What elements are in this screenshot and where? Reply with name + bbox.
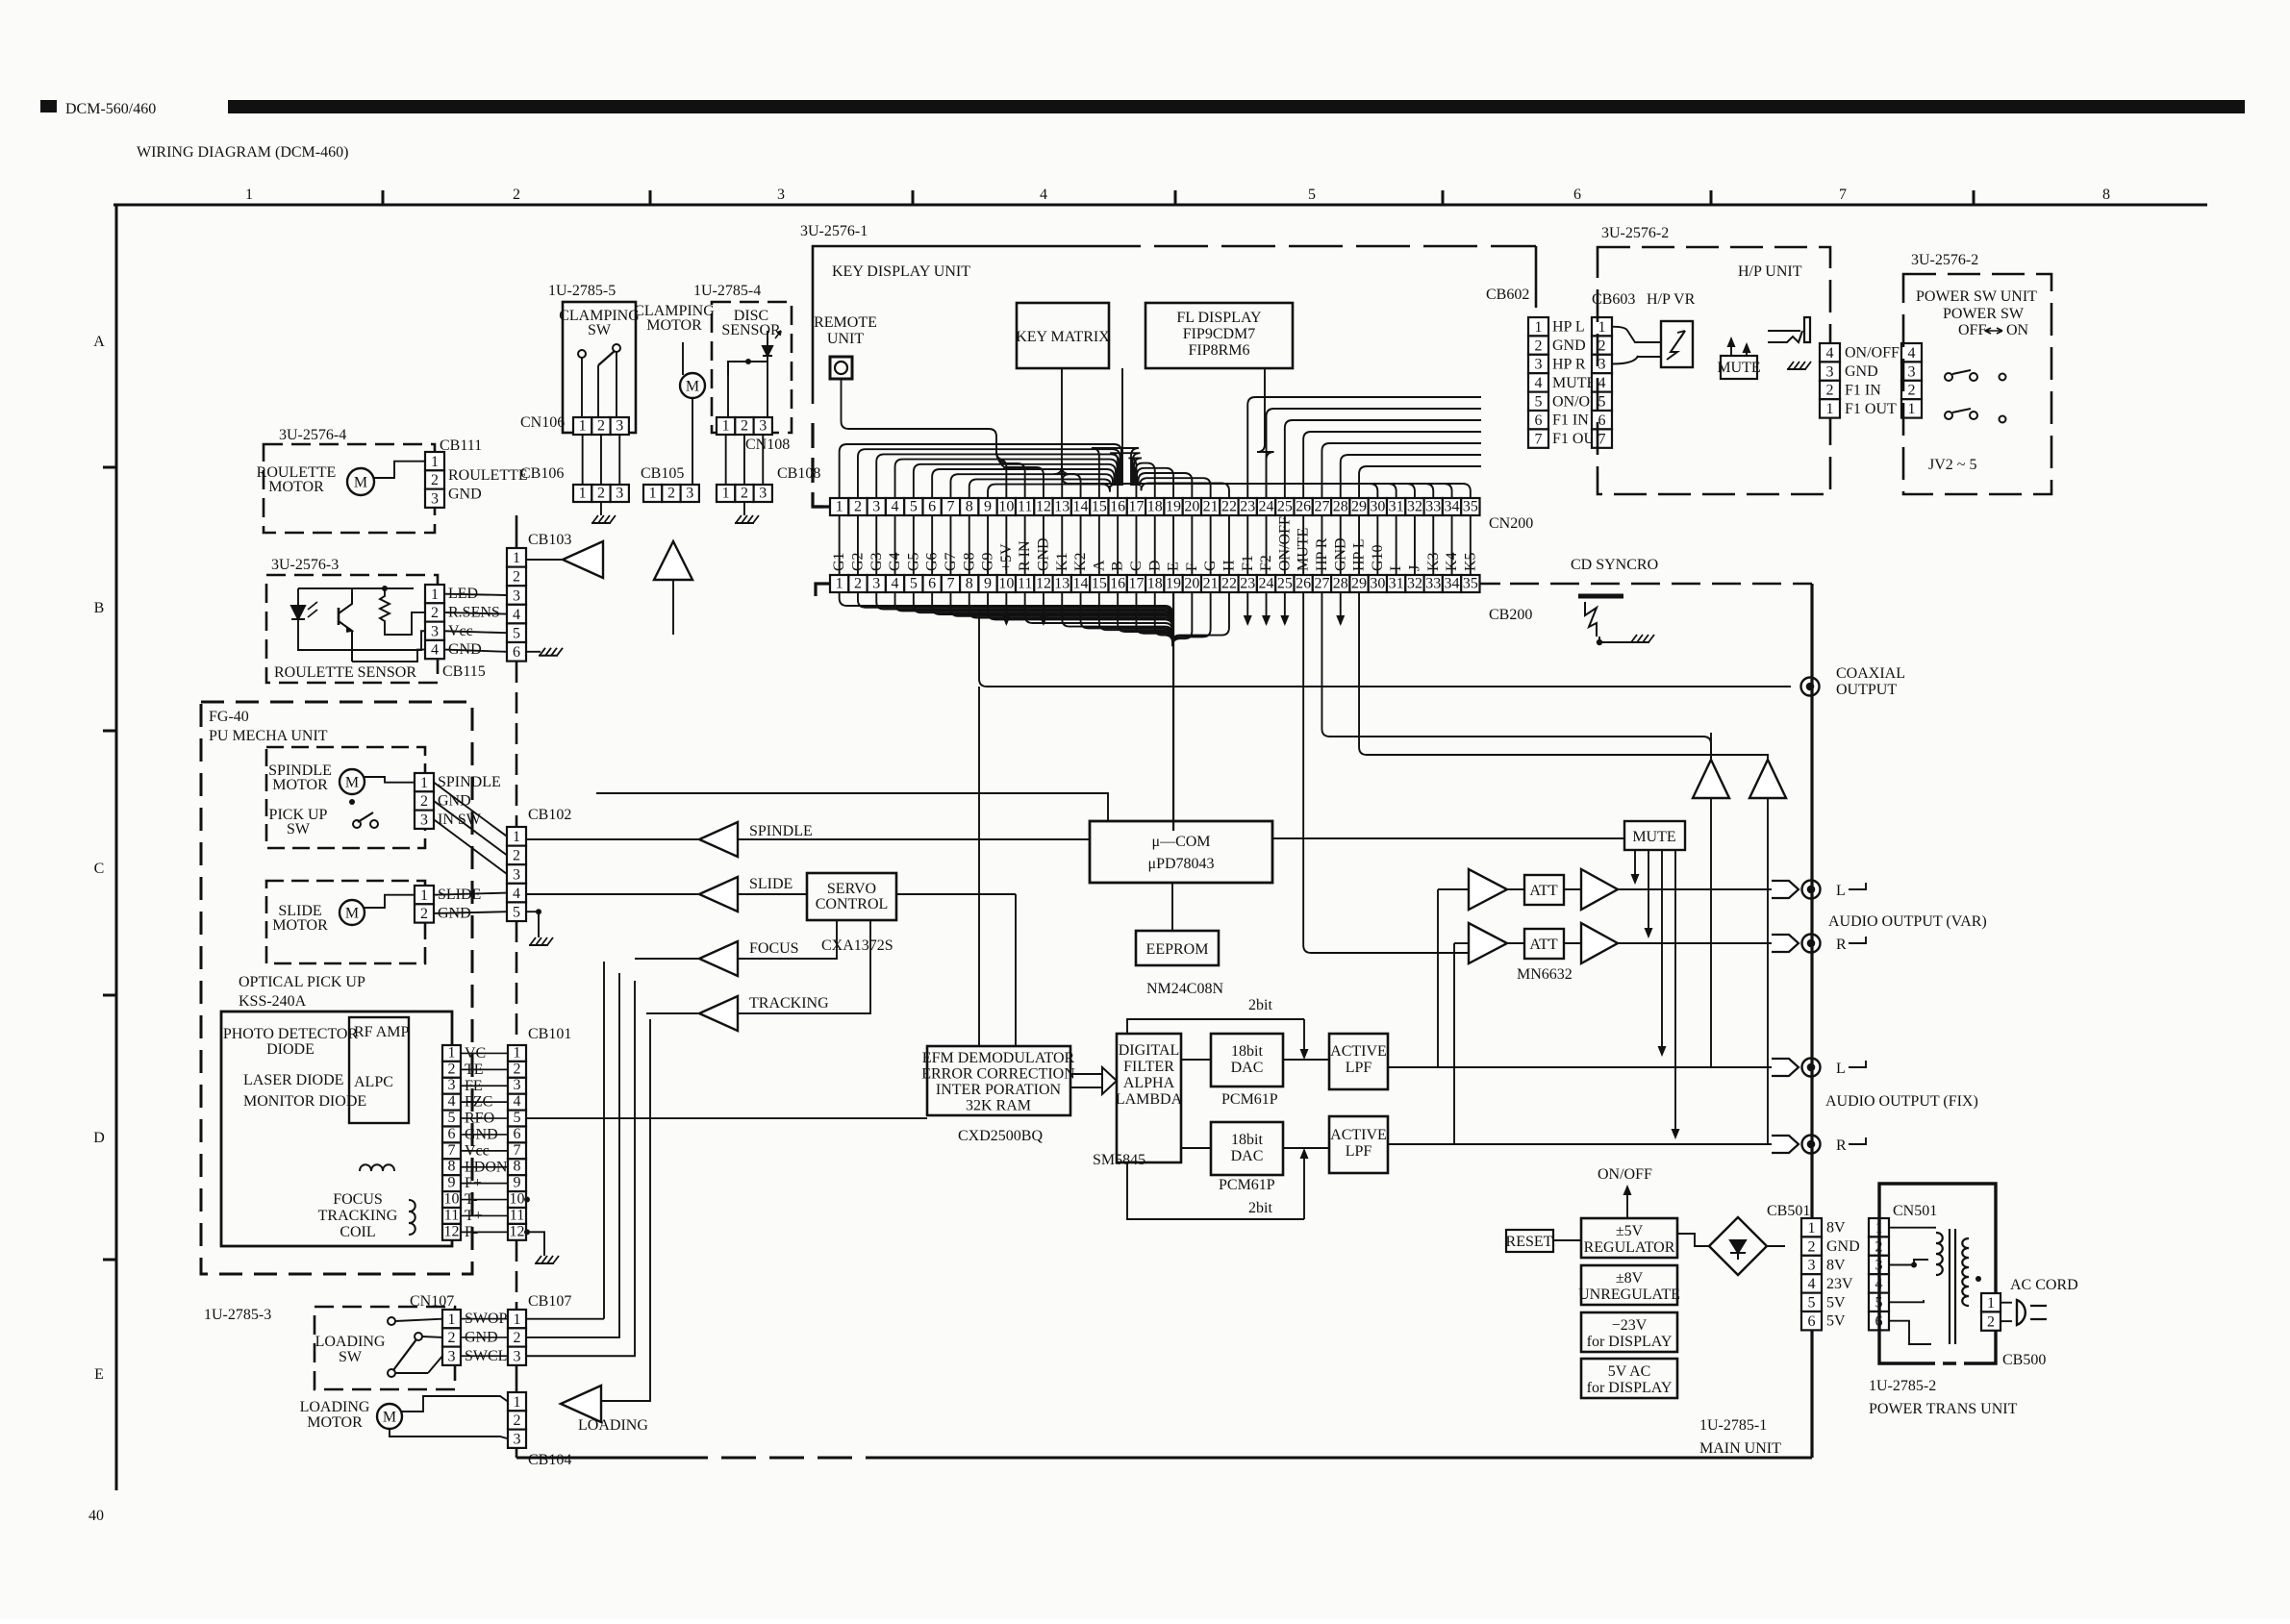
svg-text:SLIDE: SLIDE xyxy=(749,876,793,892)
wires CB107 to main xyxy=(527,966,616,1319)
svg-text:DIODE: DIODE xyxy=(266,1041,315,1058)
svg-text:5: 5 xyxy=(1535,394,1543,411)
svg-text:32: 32 xyxy=(1407,576,1422,592)
svg-text:3: 3 xyxy=(872,576,880,592)
svg-text:3U-2576-4: 3U-2576-4 xyxy=(279,427,346,443)
pick up switch xyxy=(353,820,361,828)
svg-text:16: 16 xyxy=(1110,576,1125,592)
svg-text:23: 23 xyxy=(1240,576,1255,592)
disc sensor photodiode xyxy=(763,346,772,356)
svg-text:2: 2 xyxy=(513,187,520,203)
loading sw dashed box xyxy=(315,1307,455,1389)
connector CB111 3-pin xyxy=(425,452,444,508)
connector CB107 3-pin xyxy=(508,1310,526,1365)
EFM demodulator box xyxy=(927,1046,1070,1115)
svg-text:ATT: ATT xyxy=(1529,883,1558,899)
svg-text:CN106: CN106 xyxy=(520,414,565,431)
connector CB104 3-pin xyxy=(508,1392,526,1448)
svg-text:INTER PORATION: INTER PORATION xyxy=(936,1082,1062,1098)
svg-text:4: 4 xyxy=(448,1093,456,1110)
svg-text:35: 35 xyxy=(1463,576,1478,592)
wires transformer to AC xyxy=(1978,1250,1981,1303)
svg-text:5: 5 xyxy=(514,1110,521,1126)
svg-text:10: 10 xyxy=(444,1191,460,1208)
svg-text:1: 1 xyxy=(1908,401,1916,417)
svg-text:32K RAM: 32K RAM xyxy=(966,1098,1031,1114)
svg-text:PU MECHA UNIT: PU MECHA UNIT xyxy=(209,728,328,744)
svg-text:1U-2785-5: 1U-2785-5 xyxy=(548,283,616,299)
vertical taps to VAR chain xyxy=(1437,889,1439,1067)
slide driver triangle xyxy=(699,877,738,912)
spindle motor dashed box xyxy=(266,747,425,848)
ground CB101 pin12 xyxy=(527,1232,544,1256)
svg-text:3U-2576-2: 3U-2576-2 xyxy=(1601,225,1669,241)
svg-text:LOADING: LOADING xyxy=(578,1417,648,1434)
svg-text:2: 2 xyxy=(420,906,428,922)
wires CB602-CB603 jumpers xyxy=(1548,326,1592,328)
svg-text:3: 3 xyxy=(872,499,880,515)
coaxial output jack xyxy=(1801,678,1820,696)
svg-text:CB107: CB107 xyxy=(528,1293,571,1310)
svg-text:μ—COM: μ—COM xyxy=(1151,834,1210,850)
svg-text:DAC: DAC xyxy=(1231,1148,1264,1164)
wires spindle connector to CB102 xyxy=(434,783,507,837)
svg-text:ON: ON xyxy=(2006,322,2029,338)
svg-text:24: 24 xyxy=(1259,576,1274,592)
svg-text:33: 33 xyxy=(1425,499,1441,515)
CN200-CB200 through wires xyxy=(839,515,841,575)
svg-text:8V: 8V xyxy=(1826,1258,1846,1274)
svg-text:7: 7 xyxy=(1839,187,1847,203)
svg-text:1: 1 xyxy=(722,418,730,435)
svg-text:GND: GND xyxy=(1826,1238,1860,1255)
svg-text:4: 4 xyxy=(1908,345,1916,362)
svg-text:6: 6 xyxy=(928,576,936,592)
svg-text:CB105: CB105 xyxy=(641,465,684,482)
slide wires xyxy=(365,895,415,908)
svg-text:3: 3 xyxy=(448,1077,456,1093)
svg-text:FIP9CDM7: FIP9CDM7 xyxy=(1183,326,1256,342)
grid tick col 949 xyxy=(912,190,915,205)
svg-text:3: 3 xyxy=(1535,357,1543,373)
CD syncro drop xyxy=(1598,642,1600,760)
svg-text:4: 4 xyxy=(514,1093,521,1110)
svg-text:KSS-240A: KSS-240A xyxy=(239,993,307,1010)
svg-text:40: 40 xyxy=(88,1508,104,1524)
svg-text:2: 2 xyxy=(514,1061,521,1077)
svg-text:MUTE: MUTE xyxy=(1552,375,1596,391)
svg-text:1: 1 xyxy=(1598,319,1606,336)
grid top rule xyxy=(113,204,2207,207)
focus tracking coil symbols xyxy=(360,1164,394,1171)
svg-text:R: R xyxy=(1836,1137,1847,1154)
svg-text:1U-2785-4: 1U-2785-4 xyxy=(693,283,761,299)
svg-text:NM24C08N: NM24C08N xyxy=(1146,981,1223,997)
svg-text:EFM DEMODULATOR: EFM DEMODULATOR xyxy=(922,1050,1075,1066)
wires filter-dac-lpf xyxy=(1181,1059,1211,1061)
svg-text:M: M xyxy=(345,906,359,922)
svg-text:POWER SW: POWER SW xyxy=(1943,306,2025,322)
grid tick col 398 xyxy=(382,190,385,205)
svg-text:3: 3 xyxy=(513,587,520,604)
key display unit dashed border xyxy=(813,246,1087,404)
svg-text:SPINDLE: SPINDLE xyxy=(438,774,501,790)
svg-text:35: 35 xyxy=(1463,499,1478,515)
svg-text:2: 2 xyxy=(597,486,605,502)
svg-text:CXA1372S: CXA1372S xyxy=(821,937,893,954)
svg-text:9: 9 xyxy=(984,499,992,515)
2bit bus top xyxy=(1127,1019,1304,1034)
grid tick col 1222 xyxy=(1174,190,1177,205)
svg-text:3: 3 xyxy=(420,812,428,828)
svg-text:8: 8 xyxy=(2102,187,2110,203)
svg-text:25: 25 xyxy=(1277,576,1293,592)
svg-text:CN108: CN108 xyxy=(745,437,790,453)
svg-text:ACTIVE: ACTIVE xyxy=(1330,1043,1387,1060)
svg-text:CB108: CB108 xyxy=(777,465,820,482)
svg-text:2: 2 xyxy=(514,1330,521,1346)
svg-text:7: 7 xyxy=(1535,431,1543,447)
svg-text:UNREGULATE: UNREGULATE xyxy=(1578,1287,1680,1303)
svg-text:10: 10 xyxy=(510,1191,525,1208)
wires slide connector to CB102 pins4-5 xyxy=(434,893,507,895)
connector CB101 12-pin xyxy=(508,1044,526,1239)
svg-text:CB200: CB200 xyxy=(1489,607,1532,623)
svg-text:LOADING: LOADING xyxy=(300,1399,370,1415)
svg-text:14: 14 xyxy=(1073,576,1089,592)
svg-text:2: 2 xyxy=(1808,1238,1816,1255)
svg-text:3: 3 xyxy=(616,486,623,502)
svg-text:TRACKING: TRACKING xyxy=(749,995,829,1012)
DAC box 1 xyxy=(1211,1034,1283,1087)
svg-text:FOCUS: FOCUS xyxy=(333,1191,383,1208)
svg-text:2: 2 xyxy=(420,793,428,810)
svg-text:28: 28 xyxy=(1333,499,1348,515)
svg-text:22: 22 xyxy=(1221,576,1237,592)
loading switch contacts xyxy=(388,1317,395,1325)
headphone buffer triangles (up) xyxy=(1693,760,1729,798)
svg-text:26: 26 xyxy=(1296,499,1311,515)
svg-text:8V: 8V xyxy=(1826,1220,1846,1237)
wires CN107-CB107 xyxy=(461,1318,508,1320)
connector P spindle 3-pin xyxy=(415,773,434,829)
transformer taps xyxy=(1890,1228,1936,1233)
wires JVl-JVr xyxy=(1840,352,1901,354)
svg-text:17: 17 xyxy=(1128,499,1144,515)
svg-text:FL DISPLAY: FL DISPLAY xyxy=(1176,310,1262,326)
connector CN107 3-pin xyxy=(442,1310,461,1365)
roulette sensor dashed box xyxy=(266,575,438,683)
active LPF box 2 xyxy=(1329,1116,1388,1173)
svg-text:CN200: CN200 xyxy=(1489,515,1533,532)
svg-text:POWER SW UNIT: POWER SW UNIT xyxy=(1916,288,2037,305)
svg-text:PCM61P: PCM61P xyxy=(1221,1091,1278,1108)
svg-text:ROULETTE: ROULETTE xyxy=(448,467,528,484)
svg-text:4: 4 xyxy=(892,576,899,592)
svg-text:1: 1 xyxy=(514,1044,521,1061)
svg-text:B: B xyxy=(94,600,105,616)
wire CB200 left stub xyxy=(816,584,830,596)
svg-text:1: 1 xyxy=(245,187,253,203)
svg-text:14: 14 xyxy=(1073,499,1089,515)
grid tick col 1500 xyxy=(1442,190,1445,205)
svg-text:2: 2 xyxy=(431,605,439,621)
svg-text:ERROR CORRECTION: ERROR CORRECTION xyxy=(921,1066,1075,1083)
wire CN200 left stub xyxy=(813,505,830,508)
svg-text:4: 4 xyxy=(1040,187,1047,203)
header model square xyxy=(40,100,57,112)
svg-text:1: 1 xyxy=(431,587,439,603)
svg-text:GND: GND xyxy=(1845,363,1878,380)
spindle motor M xyxy=(340,769,365,794)
wires roulette motor xyxy=(374,462,425,478)
svg-text:4: 4 xyxy=(1826,345,1834,362)
wires regulators to CB501 xyxy=(1677,1234,1709,1246)
ground CB102 pin5 xyxy=(526,912,539,937)
svg-text:19: 19 xyxy=(1166,499,1181,515)
svg-text:7: 7 xyxy=(1598,431,1606,447)
svg-text:POWER TRANS UNIT: POWER TRANS UNIT xyxy=(1869,1401,2018,1417)
svg-text:7: 7 xyxy=(514,1142,521,1159)
bridge rectifier xyxy=(1709,1217,1767,1275)
H/P VR volume resistor xyxy=(1661,321,1693,367)
connector CB603 7-pin xyxy=(1592,317,1612,448)
svg-text:11: 11 xyxy=(1018,499,1032,515)
grid tick col 676 xyxy=(649,190,652,205)
main unit left dashed border xyxy=(516,515,518,548)
svg-text:2: 2 xyxy=(741,486,748,502)
connector CN501 6-pin xyxy=(1869,1218,1889,1330)
main unit bottom border xyxy=(516,1457,673,1460)
svg-text:CN501: CN501 xyxy=(1893,1203,1937,1219)
connector CB106 3-pin xyxy=(573,485,629,502)
svg-text:4: 4 xyxy=(1808,1276,1816,1292)
mute arrows to audio lines xyxy=(1634,850,1636,883)
svg-text:GND: GND xyxy=(1552,337,1586,354)
coax feed wire xyxy=(987,592,989,606)
DAC box 2 xyxy=(1211,1122,1283,1175)
grid tick row 486 xyxy=(103,466,116,469)
svg-text:MOTOR: MOTOR xyxy=(268,479,324,495)
svg-text:1: 1 xyxy=(420,887,428,904)
svg-text:CB104: CB104 xyxy=(528,1452,571,1468)
svg-text:1U-2785-3: 1U-2785-3 xyxy=(204,1307,271,1323)
svg-text:2: 2 xyxy=(667,486,675,502)
svg-text:MOTOR: MOTOR xyxy=(272,917,328,934)
slide motor M xyxy=(340,900,365,925)
svg-text:SERVO: SERVO xyxy=(827,881,876,897)
svg-text:GND: GND xyxy=(448,486,482,502)
svg-text:μPD78043: μPD78043 xyxy=(1147,856,1214,872)
output jacks and open arrows VAR xyxy=(1772,881,1799,898)
svg-text:26: 26 xyxy=(1296,576,1311,592)
svg-text:3: 3 xyxy=(759,486,767,502)
svg-text:ACTIVE: ACTIVE xyxy=(1330,1127,1387,1143)
roulette motor M xyxy=(347,468,374,495)
svg-text:OUTPUT: OUTPUT xyxy=(1836,682,1897,698)
svg-text:5: 5 xyxy=(513,626,520,642)
svg-text:21: 21 xyxy=(1203,576,1219,592)
svg-text:PHOTO DETECTOR: PHOTO DETECTOR xyxy=(223,1026,359,1042)
svg-text:4: 4 xyxy=(513,607,520,623)
svg-text:3: 3 xyxy=(759,418,767,435)
svg-text:6: 6 xyxy=(514,1126,521,1142)
svg-text:3: 3 xyxy=(1808,1258,1816,1274)
svg-text:25: 25 xyxy=(1277,499,1293,515)
svg-text:SW: SW xyxy=(287,821,311,837)
svg-text:13: 13 xyxy=(1054,499,1070,515)
svg-text:4: 4 xyxy=(431,642,439,659)
driver feedback wires xyxy=(738,838,1090,840)
+-8V unregulate box xyxy=(1581,1265,1677,1305)
svg-text:6: 6 xyxy=(1808,1313,1816,1330)
svg-text:1U-2785-1: 1U-2785-1 xyxy=(1699,1417,1767,1434)
svg-text:7: 7 xyxy=(448,1142,456,1159)
svg-text:3: 3 xyxy=(777,187,785,203)
long drops from CB200 pins 26,27,29,30 xyxy=(1303,592,1469,953)
svg-text:5: 5 xyxy=(910,499,918,515)
svg-text:ALPHA: ALPHA xyxy=(1123,1075,1175,1091)
connector CN200 35-pin row xyxy=(830,498,1480,515)
mute box (main) xyxy=(1624,821,1685,850)
svg-text:34: 34 xyxy=(1445,499,1460,515)
svg-text:33: 33 xyxy=(1425,576,1441,592)
svg-text:22: 22 xyxy=(1221,499,1237,515)
clamping sw contacts xyxy=(578,350,586,358)
svg-text:8: 8 xyxy=(966,499,973,515)
svg-text:DAC: DAC xyxy=(1231,1060,1264,1076)
svg-text:5: 5 xyxy=(448,1110,456,1126)
svg-text:SW: SW xyxy=(588,322,612,338)
svg-text:4: 4 xyxy=(513,886,520,902)
headphone jack symbol xyxy=(1768,331,1802,342)
svg-text:1: 1 xyxy=(1808,1220,1816,1237)
svg-text:1: 1 xyxy=(514,1394,521,1411)
power sw unit dash border xyxy=(1903,274,2051,494)
2bit bus bottom xyxy=(1127,1162,1304,1219)
connector CB602 7-pin xyxy=(1528,317,1548,448)
svg-text:HP R: HP R xyxy=(1552,357,1586,373)
svg-text:2bit: 2bit xyxy=(1248,1200,1272,1216)
svg-text:2: 2 xyxy=(854,499,862,515)
connector CB103 6-pin xyxy=(507,548,526,662)
header rule bar xyxy=(228,100,2245,113)
svg-text:KEY DISPLAY UNIT: KEY DISPLAY UNIT xyxy=(832,263,970,280)
svg-text:2: 2 xyxy=(1987,1313,1995,1330)
svg-text:CB111: CB111 xyxy=(440,437,482,454)
svg-text:17: 17 xyxy=(1128,576,1144,592)
svg-text:3: 3 xyxy=(513,866,520,883)
loading driver triangle xyxy=(561,1386,601,1422)
svg-text:12: 12 xyxy=(1036,499,1051,515)
svg-text:CN107: CN107 xyxy=(410,1293,454,1310)
svg-text:1: 1 xyxy=(649,486,657,502)
svg-text:31: 31 xyxy=(1389,499,1404,515)
spindle driver triangle xyxy=(699,822,738,857)
svg-text:1: 1 xyxy=(836,576,843,592)
CD syncro jack xyxy=(1578,594,1623,599)
svg-text:CB602: CB602 xyxy=(1486,287,1529,303)
svg-text:30: 30 xyxy=(1370,499,1385,515)
grid tick row 760 xyxy=(103,730,116,733)
svg-text:11: 11 xyxy=(444,1207,459,1223)
svg-text:9: 9 xyxy=(514,1175,521,1191)
wires optical to CB101 xyxy=(461,1052,508,1054)
svg-text:13: 13 xyxy=(1054,576,1070,592)
FL display box xyxy=(1145,303,1293,368)
svg-text:3: 3 xyxy=(514,1077,521,1093)
svg-text:30: 30 xyxy=(1370,576,1385,592)
svg-text:2: 2 xyxy=(448,1330,456,1346)
svg-text:27: 27 xyxy=(1314,499,1329,515)
svg-text:for DISPLAY: for DISPLAY xyxy=(1587,1380,1673,1396)
svg-text:5: 5 xyxy=(513,905,520,921)
svg-text:10: 10 xyxy=(998,499,1014,515)
svg-text:18bit: 18bit xyxy=(1231,1043,1263,1060)
svg-text:SENSOR: SENSOR xyxy=(721,322,781,338)
svg-text:CB115: CB115 xyxy=(442,663,486,680)
svg-text:OFF: OFF xyxy=(1958,322,1986,338)
svg-text:MN6632: MN6632 xyxy=(1517,966,1573,983)
svg-text:MOTOR: MOTOR xyxy=(307,1414,363,1431)
svg-text:ATT: ATT xyxy=(1529,937,1558,953)
svg-text:CXD2500BQ: CXD2500BQ xyxy=(958,1128,1043,1144)
svg-text:4: 4 xyxy=(1535,375,1543,391)
svg-text:KEY MATRIX: KEY MATRIX xyxy=(1016,329,1110,345)
wires CB115 to CB103 xyxy=(444,594,507,595)
pre amp triangle VAR R xyxy=(1469,923,1507,963)
pre amp triangle VAR L xyxy=(1469,869,1507,910)
svg-text:6: 6 xyxy=(928,499,936,515)
svg-text:1: 1 xyxy=(722,486,730,502)
svg-text:3: 3 xyxy=(514,1431,521,1447)
connector CB115 4-pin xyxy=(425,585,444,659)
amp triangle (roulette) xyxy=(563,541,603,578)
output jacks and open arrows FIX xyxy=(1772,1059,1799,1076)
PU mecha unit dashed border xyxy=(201,702,472,1274)
svg-text:CD SYNCRO: CD SYNCRO xyxy=(1571,557,1658,573)
ATT box 1 xyxy=(1524,875,1564,905)
svg-text:TRACKING: TRACKING xyxy=(318,1208,398,1224)
svg-text:JV2 ~ 5: JV2 ~ 5 xyxy=(1928,457,1976,473)
svg-text:20: 20 xyxy=(1184,576,1199,592)
svg-text:2: 2 xyxy=(431,472,439,488)
svg-text:23: 23 xyxy=(1240,499,1255,515)
svg-text:RESET: RESET xyxy=(1506,1234,1553,1250)
slide motor dashed box xyxy=(266,881,425,963)
svg-text:DIGITAL: DIGITAL xyxy=(1119,1042,1180,1059)
svg-text:6: 6 xyxy=(1598,412,1606,429)
sensor wires to connector xyxy=(298,587,385,589)
svg-text:1: 1 xyxy=(420,775,428,791)
svg-text:2: 2 xyxy=(1535,337,1543,354)
svg-text:2: 2 xyxy=(514,1412,521,1429)
svg-text:2: 2 xyxy=(597,418,605,435)
svg-text:1: 1 xyxy=(836,499,843,515)
svg-text:6: 6 xyxy=(448,1126,456,1142)
svg-text:R: R xyxy=(1836,937,1847,953)
svg-text:2: 2 xyxy=(513,569,520,586)
svg-text:12: 12 xyxy=(1036,576,1051,592)
svg-text:SW: SW xyxy=(339,1349,363,1365)
svg-text:FILTER: FILTER xyxy=(1123,1059,1174,1075)
svg-text:9: 9 xyxy=(984,576,992,592)
svg-text:2: 2 xyxy=(448,1061,456,1077)
wires CB101 to EFM xyxy=(527,1053,604,1061)
AC plug xyxy=(2017,1300,2026,1325)
svg-text:FIP8RM6: FIP8RM6 xyxy=(1188,342,1249,359)
svg-text:19: 19 xyxy=(1166,576,1181,592)
